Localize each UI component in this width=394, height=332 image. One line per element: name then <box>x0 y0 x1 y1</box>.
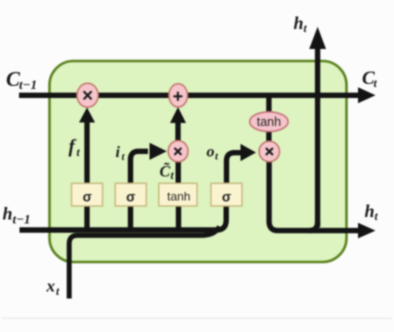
svg-text:t−1: t−1 <box>13 212 31 227</box>
svg-text:tanh: tanh <box>167 190 190 204</box>
svg-text:σ: σ <box>126 190 135 205</box>
svg-text:t−1: t−1 <box>19 77 37 92</box>
svg-text:C̃: C̃ <box>160 161 171 180</box>
svg-text:tanh: tanh <box>257 115 281 129</box>
svg-text:h: h <box>3 204 13 224</box>
svg-text:h: h <box>365 201 375 221</box>
svg-text:σ: σ <box>222 190 231 205</box>
svg-text:x: x <box>46 277 56 296</box>
svg-text:o: o <box>207 144 215 161</box>
svg-text:σ: σ <box>83 190 92 205</box>
svg-text:h: h <box>294 13 304 33</box>
svg-text:i: i <box>116 144 121 161</box>
